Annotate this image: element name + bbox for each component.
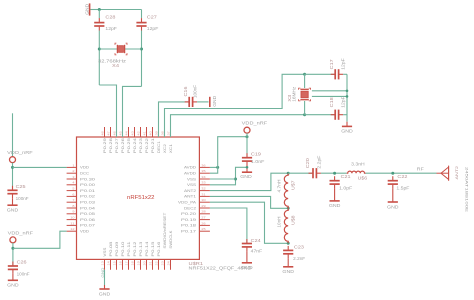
svg-text:GND: GND bbox=[282, 269, 294, 274]
pin 47 P0.28 (top) bbox=[110, 127, 112, 137]
junction AVDD supply bbox=[246, 135, 249, 138]
capacitor C26 100nF bbox=[8, 262, 18, 274]
pin 17 P0.11 (bottom) bbox=[128, 259, 130, 269]
wire supply stem bbox=[246, 133, 248, 137]
svg-text:VSS: VSS bbox=[187, 177, 196, 181]
svg-text:12pF: 12pF bbox=[341, 96, 346, 108]
svg-text:40: 40 bbox=[148, 131, 152, 136]
svg-text:P0.24: P0.24 bbox=[133, 138, 137, 153]
wire balun to C20 bbox=[288, 172, 312, 174]
svg-text:X4: X4 bbox=[112, 63, 120, 68]
pin 46 P0.27 (top) bbox=[116, 127, 118, 137]
wire XC to pin 3 (32k) bbox=[99, 85, 116, 137]
svg-text:10nH: 10nH bbox=[277, 217, 282, 228]
inductor U$7 4.7nH bbox=[284, 173, 288, 208]
svg-text:P0.07: P0.07 bbox=[80, 224, 95, 228]
pin 43 P0.24 (top) bbox=[134, 127, 136, 137]
svg-text:P0.03: P0.03 bbox=[80, 201, 95, 205]
svg-text:16: 16 bbox=[118, 261, 122, 266]
svg-text:36: 36 bbox=[201, 163, 206, 167]
crystal X3 bottom lead bbox=[304, 101, 306, 115]
pin 33 VSS (right) bbox=[199, 184, 210, 186]
svg-text:P0.14: P0.14 bbox=[145, 241, 149, 256]
wire VDD_nRF to pin 1 bbox=[13, 166, 67, 168]
svg-text:P0.29: P0.29 bbox=[103, 138, 107, 153]
junction VSS at gnd stem bbox=[246, 166, 249, 169]
junction C21 bbox=[333, 172, 336, 175]
svg-text:C22: C22 bbox=[397, 174, 408, 179]
junction crystal right bbox=[140, 48, 143, 51]
junction crystal X3 bottom bbox=[303, 113, 306, 116]
pin 18 P0.12 (bottom) bbox=[134, 259, 136, 269]
svg-text:1.0nF: 1.0nF bbox=[251, 159, 265, 164]
svg-text:16MHz: 16MHz bbox=[291, 87, 296, 102]
wire crystal bottom to C18 bbox=[305, 114, 335, 116]
svg-text:45: 45 bbox=[118, 131, 122, 136]
svg-text:5: 5 bbox=[72, 187, 75, 191]
wire L to antenna bbox=[366, 172, 437, 174]
svg-text:ANT1: ANT1 bbox=[184, 195, 196, 199]
svg-text:100nF: 100nF bbox=[193, 85, 198, 98]
junction VDD_nRF pin12 bbox=[11, 247, 14, 250]
inductor U$6 3.3nH bbox=[347, 171, 366, 173]
pin 12 VDD (left) bbox=[67, 230, 77, 232]
ground below C22 bbox=[387, 189, 399, 210]
capacitor C28 bbox=[94, 18, 104, 30]
wire C20 to L U$6 bbox=[321, 172, 347, 174]
svg-text:DEC1: DEC1 bbox=[157, 141, 161, 153]
svg-text:GND: GND bbox=[84, 4, 89, 15]
svg-text:30: 30 bbox=[201, 198, 206, 202]
svg-text:P0.25: P0.25 bbox=[127, 138, 131, 153]
wire XC to pin 4 (32k) bbox=[123, 86, 142, 137]
capacitor C25 100nF bbox=[7, 186, 17, 198]
pin 24 SWDCLK (bottom) bbox=[170, 259, 172, 269]
svg-text:38: 38 bbox=[160, 131, 164, 136]
pin 9 P0.05 (left) bbox=[67, 213, 77, 215]
svg-text:1.5pF: 1.5pF bbox=[396, 186, 410, 191]
svg-text:GND: GND bbox=[241, 265, 253, 270]
svg-text:P0.22: P0.22 bbox=[145, 138, 149, 153]
capacitor C16 100nF bbox=[185, 97, 197, 107]
svg-text:U$6: U$6 bbox=[358, 175, 368, 180]
svg-text:P0.17: P0.17 bbox=[181, 230, 196, 234]
IC U$R1 nRF51x22 QFP body bbox=[77, 137, 200, 259]
pin 13 VSS (bottom) bbox=[104, 259, 106, 269]
svg-text:GND: GND bbox=[101, 267, 105, 277]
junction balun top bbox=[287, 172, 290, 175]
pin 4 P0.00 (left) bbox=[67, 184, 77, 186]
svg-text:32: 32 bbox=[201, 187, 206, 191]
svg-text:P0.11: P0.11 bbox=[127, 241, 131, 256]
svg-text:21: 21 bbox=[148, 261, 152, 266]
pin 6 P0.02 (left) bbox=[67, 195, 77, 197]
crystal X3 case pins to gnd rail bbox=[312, 91, 347, 97]
pin 2 DCC (left) bbox=[67, 172, 77, 174]
svg-text:P0.10: P0.10 bbox=[121, 241, 125, 256]
pin 41 P0.22 (top) bbox=[146, 127, 148, 137]
svg-text:11: 11 bbox=[70, 221, 75, 225]
svg-text:C28: C28 bbox=[105, 14, 116, 19]
svg-text:P0.06: P0.06 bbox=[80, 218, 95, 222]
wire C28 to XC wire (left branch) bbox=[98, 31, 100, 86]
wire VDD_nRF to pin 12 bbox=[13, 231, 67, 248]
wire supply to C25 bbox=[12, 163, 14, 190]
svg-text:42: 42 bbox=[136, 131, 140, 136]
wire AVDD to pin35 bbox=[210, 167, 218, 173]
pin 34 VSS (right) bbox=[199, 178, 210, 180]
svg-text:37: 37 bbox=[166, 131, 170, 136]
svg-text:P0.05: P0.05 bbox=[80, 212, 95, 216]
wire ANT2 to balun bbox=[210, 173, 288, 190]
wire DEC1 to C16 bbox=[159, 102, 189, 137]
svg-text:47: 47 bbox=[106, 131, 110, 136]
svg-text:7: 7 bbox=[72, 198, 75, 202]
pin 20 P0.14 (bottom) bbox=[146, 259, 148, 269]
pin 40 P0.21 (top) bbox=[152, 127, 154, 137]
junction VDD_nRF pin1 bbox=[11, 166, 14, 169]
svg-text:1.0pF: 1.0pF bbox=[339, 185, 353, 190]
svg-text:P0.26: P0.26 bbox=[121, 138, 125, 153]
wire XC2 pin to crystal top bbox=[165, 74, 305, 137]
svg-text:U$7: U$7 bbox=[291, 180, 296, 190]
svg-text:P0.02: P0.02 bbox=[80, 195, 95, 199]
pin 26 P0.18 (right) bbox=[199, 224, 210, 226]
svg-text:VDD_nRF: VDD_nRF bbox=[242, 121, 268, 126]
svg-text:48: 48 bbox=[100, 131, 104, 136]
svg-text:29: 29 bbox=[201, 204, 206, 208]
svg-text:U$8: U$8 bbox=[291, 215, 296, 225]
svg-text:2450AT18B100E: 2450AT18B100E bbox=[464, 167, 468, 213]
ground below C19 bbox=[240, 165, 252, 179]
svg-text:4: 4 bbox=[72, 181, 75, 185]
pin 28 P0.20 (right) bbox=[199, 213, 210, 215]
svg-text:13: 13 bbox=[100, 261, 104, 266]
wire AVDD up to supply bbox=[218, 137, 247, 168]
wire top rail down to C27 bbox=[141, 10, 143, 19]
junction crystal X3 top bbox=[303, 73, 306, 76]
svg-text:C17: C17 bbox=[329, 58, 334, 69]
ground below C24 bbox=[241, 251, 253, 270]
junction balun bottom bbox=[287, 242, 290, 245]
pin 3 P0.30 (left) bbox=[67, 178, 77, 180]
svg-text:8: 8 bbox=[72, 204, 75, 208]
wire 32k top rail bbox=[99, 9, 141, 11]
svg-text:C26: C26 bbox=[17, 259, 28, 264]
svg-text:GND: GND bbox=[341, 129, 353, 134]
svg-text:AVDD: AVDD bbox=[184, 166, 197, 170]
wire C16 to GND bbox=[197, 101, 208, 103]
svg-text:1: 1 bbox=[72, 163, 75, 167]
pin 32 ANT2 (right) bbox=[199, 190, 210, 192]
svg-text:12: 12 bbox=[70, 227, 75, 231]
svg-text:6: 6 bbox=[72, 192, 75, 196]
svg-text:C16: C16 bbox=[183, 86, 188, 97]
svg-text:100nF: 100nF bbox=[17, 271, 30, 276]
pin 39 DEC1 (top) bbox=[158, 127, 160, 137]
ground 16MHz rail bbox=[341, 122, 353, 134]
pin 1 VDD (left) bbox=[67, 166, 77, 168]
svg-text:XC1: XC1 bbox=[169, 144, 173, 153]
pin 31 ANT1 (right) bbox=[199, 195, 210, 197]
svg-text:P0.28: P0.28 bbox=[109, 138, 113, 153]
capacitor C19 1.0nF bbox=[242, 153, 252, 165]
svg-text:nRF51x22: nRF51x22 bbox=[127, 195, 155, 201]
ground (rotated) right of C16 bbox=[210, 96, 217, 107]
pin 25 P0.17 (right) bbox=[199, 230, 210, 232]
junction crystal left bbox=[98, 48, 101, 51]
svg-text:4.7nH: 4.7nH bbox=[277, 180, 282, 193]
crystal X3 16MHz body bbox=[299, 88, 311, 101]
svg-text:2: 2 bbox=[72, 169, 75, 173]
svg-text:DEC2: DEC2 bbox=[184, 206, 196, 210]
svg-text:39: 39 bbox=[154, 131, 158, 136]
svg-text:C20: C20 bbox=[305, 157, 310, 168]
pin 30 VDD_PA (right) bbox=[199, 201, 210, 203]
svg-text:27: 27 bbox=[201, 216, 206, 220]
svg-text:GND: GND bbox=[212, 96, 217, 107]
capacitor C22 1.5pF bbox=[388, 176, 398, 188]
pin 11 P0.07 (left) bbox=[67, 224, 77, 226]
pin 48 P0.29 (top) bbox=[104, 127, 106, 137]
svg-text:P0.27: P0.27 bbox=[115, 138, 119, 153]
svg-text:P0.18: P0.18 bbox=[181, 224, 196, 228]
junction rail case pin 1 bbox=[346, 90, 349, 93]
svg-text:2.2pF: 2.2pF bbox=[317, 155, 322, 169]
junction rail case pin 2 bbox=[346, 95, 349, 98]
junction balun mid bbox=[287, 207, 290, 210]
svg-text:14: 14 bbox=[106, 261, 110, 266]
svg-text:VDD: VDD bbox=[80, 230, 90, 234]
pin 7 P0.03 (left) bbox=[67, 201, 77, 203]
wire gnd rail 16MHz bbox=[346, 74, 348, 121]
svg-text:28: 28 bbox=[201, 210, 206, 214]
wire VDD_nRF stub up bbox=[12, 113, 14, 156]
supply VDD_nRF (pin12) bbox=[8, 230, 34, 243]
svg-text:33: 33 bbox=[201, 181, 206, 185]
svg-text:18: 18 bbox=[130, 261, 134, 266]
capacitor C18 12pF bbox=[331, 110, 343, 120]
wire supply to C19 bbox=[246, 137, 248, 158]
svg-text:19: 19 bbox=[136, 261, 140, 266]
pin 15 P0.09 (bottom) bbox=[116, 259, 118, 269]
svg-text:SWDCLK: SWDCLK bbox=[169, 229, 173, 248]
pin 23 SWDIO/nRESET (bottom) bbox=[164, 259, 166, 269]
svg-text:C24: C24 bbox=[251, 238, 262, 243]
pin 38 XC2 (top) bbox=[164, 127, 166, 137]
junction AVDD bbox=[216, 166, 219, 169]
svg-text:9: 9 bbox=[72, 210, 75, 214]
wire ANT1 to balun mid bbox=[210, 196, 288, 208]
crystal X4 32.768kHz bbox=[115, 43, 127, 55]
svg-text:VDD_nRF: VDD_nRF bbox=[8, 230, 34, 235]
svg-text:VDD_nRF: VDD_nRF bbox=[7, 150, 33, 155]
wire C17 to rail bbox=[343, 73, 347, 75]
svg-text:GND: GND bbox=[240, 174, 252, 179]
svg-text:P0.12: P0.12 bbox=[133, 241, 137, 256]
svg-text:26: 26 bbox=[201, 221, 206, 225]
svg-text:C23: C23 bbox=[294, 244, 305, 249]
antenna ANT2 2450AT18B100E bbox=[437, 166, 449, 181]
svg-text:22: 22 bbox=[154, 261, 158, 266]
svg-text:C21: C21 bbox=[341, 174, 352, 179]
svg-text:46: 46 bbox=[112, 131, 116, 136]
svg-text:43: 43 bbox=[130, 131, 134, 136]
pin 22 P0.16 (bottom) bbox=[158, 259, 160, 269]
svg-text:GND: GND bbox=[329, 203, 341, 208]
pin 35 AVDD (right) bbox=[199, 172, 210, 174]
capacitor C27 bbox=[136, 18, 146, 30]
capacitor C17 12pF bbox=[331, 69, 343, 79]
pin 21 P0.15 (bottom) bbox=[152, 259, 154, 269]
svg-text:GND: GND bbox=[7, 208, 19, 213]
svg-text:35: 35 bbox=[201, 169, 206, 173]
pin 36 AVDD (right) bbox=[199, 166, 210, 168]
svg-text:C18: C18 bbox=[329, 96, 334, 107]
pin 29 DEC2 (right) bbox=[199, 207, 210, 209]
svg-text:C27: C27 bbox=[147, 14, 158, 19]
inductor U$8 10nH bbox=[284, 208, 288, 243]
wire crystal left lead bbox=[99, 48, 117, 50]
svg-text:12pF: 12pF bbox=[105, 26, 117, 31]
ground below C23 bbox=[282, 258, 294, 274]
pin 8 P0.04 (left) bbox=[67, 207, 77, 209]
svg-text:ANT2: ANT2 bbox=[455, 166, 459, 180]
svg-text:P0.09: P0.09 bbox=[115, 241, 119, 256]
svg-text:23: 23 bbox=[160, 261, 164, 266]
svg-text:P0.21: P0.21 bbox=[151, 138, 155, 153]
svg-text:VSS: VSS bbox=[187, 183, 196, 187]
supply VDD_nRF (pin1) bbox=[7, 150, 33, 163]
pin 16 P0.10 (bottom) bbox=[122, 259, 124, 269]
pin 27 P0.19 (right) bbox=[199, 219, 210, 221]
crystal X3 top lead bbox=[304, 74, 306, 88]
wire C18 to rail bbox=[343, 114, 347, 116]
svg-text:P0.01: P0.01 bbox=[80, 189, 95, 193]
svg-text:P0.13: P0.13 bbox=[139, 241, 143, 256]
svg-text:12pF: 12pF bbox=[147, 26, 159, 31]
capacitor C23 2.2nF bbox=[283, 246, 293, 258]
svg-text:VSS: VSS bbox=[103, 248, 107, 257]
pin 14 P0.08 (bottom) bbox=[110, 259, 112, 269]
wire pin36 AVDD bbox=[210, 166, 218, 168]
svg-text:ANT2: ANT2 bbox=[184, 189, 196, 193]
supply VDD_nRF (AVDD) bbox=[242, 121, 268, 134]
svg-text:100nF: 100nF bbox=[16, 196, 29, 201]
svg-text:2.2nF: 2.2nF bbox=[293, 256, 305, 261]
svg-text:44: 44 bbox=[124, 131, 128, 136]
svg-text:17: 17 bbox=[124, 261, 128, 266]
wire VDD_PA to balun bottom bbox=[210, 202, 288, 243]
svg-text:P0.19: P0.19 bbox=[181, 218, 196, 222]
pin 37 XC1 (top) bbox=[170, 127, 172, 137]
wire crystal top to C17 bbox=[305, 73, 335, 75]
svg-text:C25: C25 bbox=[16, 184, 27, 189]
svg-text:15: 15 bbox=[112, 261, 116, 266]
svg-text:47nF: 47nF bbox=[251, 248, 263, 253]
svg-text:P0.20: P0.20 bbox=[181, 212, 196, 216]
wire junction to C28 bbox=[98, 10, 100, 19]
capacitor C20 2.2pF bbox=[309, 168, 321, 178]
pin 42 P0.23 (top) bbox=[140, 127, 142, 137]
wire VSS pins to ground bbox=[210, 167, 247, 185]
svg-text:RF: RF bbox=[417, 166, 425, 171]
svg-text:31: 31 bbox=[201, 192, 206, 196]
junction C22 bbox=[391, 172, 394, 175]
junction C28 top bbox=[98, 8, 101, 11]
svg-text:P0.00: P0.00 bbox=[80, 183, 95, 187]
svg-text:P0.16: P0.16 bbox=[157, 241, 161, 256]
svg-text:GND: GND bbox=[99, 291, 111, 296]
wire pin13 VSS to ground bbox=[104, 270, 106, 285]
wire pin34 VSS bbox=[210, 178, 236, 180]
svg-text:P0.08: P0.08 bbox=[109, 241, 113, 256]
wire crystal right lead bbox=[125, 48, 142, 50]
svg-text:P0.30: P0.30 bbox=[80, 177, 95, 181]
pin 10 P0.06 (left) bbox=[67, 219, 77, 221]
pin 19 P0.13 (bottom) bbox=[140, 259, 142, 269]
svg-text:C19: C19 bbox=[251, 151, 262, 156]
svg-text:20: 20 bbox=[142, 261, 146, 266]
svg-text:P0.04: P0.04 bbox=[80, 206, 95, 210]
svg-text:SWDIO/nRESET: SWDIO/nRESET bbox=[163, 213, 167, 249]
svg-text:41: 41 bbox=[142, 131, 146, 136]
ground below C25 bbox=[7, 198, 19, 212]
svg-text:DCC: DCC bbox=[80, 172, 90, 176]
svg-text:XC2: XC2 bbox=[163, 144, 167, 153]
svg-text:24: 24 bbox=[166, 261, 170, 266]
junction VSS bbox=[234, 178, 237, 181]
svg-text:VDD: VDD bbox=[80, 166, 90, 170]
svg-text:GND: GND bbox=[7, 283, 19, 288]
capacitor C24 47nF bbox=[242, 239, 252, 251]
pin 45 P0.26 (top) bbox=[122, 127, 124, 137]
ground below C26 bbox=[7, 274, 19, 288]
wire GND to 32k top rail bbox=[90, 9, 99, 11]
svg-text:VDD_PA: VDD_PA bbox=[178, 201, 197, 205]
wire supply to C26 bbox=[12, 243, 14, 266]
svg-text:3.3nH: 3.3nH bbox=[351, 161, 365, 166]
svg-text:12pF: 12pF bbox=[341, 58, 346, 70]
ground (rotated) top-left bbox=[84, 3, 89, 15]
ground below C21 bbox=[329, 189, 341, 209]
capacitor C21 1.0pF bbox=[330, 176, 340, 188]
svg-text:P0.15: P0.15 bbox=[151, 241, 155, 256]
svg-text:GND: GND bbox=[387, 204, 399, 209]
ground below pin 13 bbox=[99, 285, 111, 296]
svg-text:3: 3 bbox=[72, 175, 75, 179]
svg-text:P0.23: P0.23 bbox=[139, 138, 143, 153]
pin 44 P0.25 (top) bbox=[128, 127, 130, 137]
svg-text:34: 34 bbox=[201, 175, 206, 179]
svg-text:25: 25 bbox=[201, 227, 206, 231]
wire XC1 pin to crystal bottom bbox=[171, 115, 305, 137]
wire DEC2 to C24 bbox=[210, 208, 247, 243]
svg-text:10: 10 bbox=[70, 216, 75, 220]
svg-text:AVDD: AVDD bbox=[184, 172, 197, 176]
wire C27 down (right branch) bbox=[141, 31, 143, 87]
pin 5 P0.01 (left) bbox=[67, 190, 77, 192]
